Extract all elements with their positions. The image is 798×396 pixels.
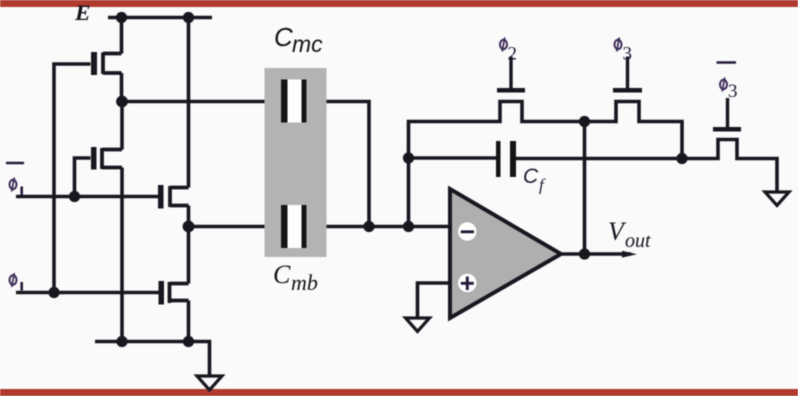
wire node A to Cmc left plate	[122, 100, 282, 104]
svg-text:C: C	[273, 260, 291, 289]
capacitor Cmb	[281, 205, 307, 248]
transistor M4 channel	[170, 282, 189, 303]
transistor M3 gate bar	[158, 185, 164, 209]
switch phi3 gate	[613, 57, 642, 93]
wire M4 source to bottom rail	[187, 301, 191, 342]
junction M1 gate on phi1 line	[48, 287, 59, 298]
junction inverting node	[403, 221, 414, 232]
junction node A	[116, 96, 128, 108]
shaded box around Cmc and Cmb	[265, 68, 327, 257]
svg-text:mb: mb	[291, 270, 318, 295]
bottom red border bar	[0, 389, 798, 396]
wire bottom rail	[95, 342, 210, 377]
wire M1 gate lead to phi1 line	[54, 64, 91, 293]
junction Cmc output on summing line	[363, 221, 374, 232]
label Cmb	[273, 260, 318, 295]
label Vout	[608, 217, 651, 252]
wire M3 source to node B	[187, 206, 191, 227]
label phi1 subscript 1	[20, 282, 23, 291]
label phi1 glyph	[10, 273, 17, 287]
wire op-amp output	[561, 252, 631, 256]
svg-text:3: 3	[728, 81, 738, 102]
wire Cf feedback branch left	[409, 156, 497, 160]
capacitor Cmc	[281, 80, 307, 123]
wire M1 source down to node A	[120, 73, 124, 102]
junction Cf left	[403, 152, 414, 163]
wire Cf feedback branch right	[516, 157, 682, 161]
label phi3 glyph	[615, 38, 622, 52]
transistor M1 channel	[103, 53, 122, 75]
wire Cmc right plate to summing node	[307, 102, 370, 227]
svg-text:3: 3	[623, 44, 633, 65]
wire phi1bar input line	[16, 195, 159, 199]
svg-text:C: C	[274, 22, 293, 52]
label phi2 glyph	[500, 38, 507, 52]
capacitor Cf	[496, 141, 516, 177]
transistor M2 gate bar	[91, 147, 97, 170]
svg-text:mc: mc	[292, 31, 323, 57]
wire E supply rail	[108, 16, 212, 20]
wire node A down to M2	[120, 102, 124, 150]
wire phi1 input line	[16, 291, 159, 295]
wire Cmb right plate to op-amp inverting input	[307, 225, 451, 229]
label phi3bar overbar	[717, 61, 737, 64]
top red border bar	[0, 0, 798, 7]
junction rail-M1	[116, 12, 127, 23]
label phi3bar glyph	[720, 78, 727, 92]
label Cf	[523, 165, 546, 195]
junction output node	[579, 248, 590, 259]
svg-text:out: out	[625, 230, 651, 252]
junction bottom rail right	[183, 336, 194, 347]
junction M2 gate on phi1bar line	[69, 191, 80, 202]
junction node B	[183, 221, 195, 233]
wire inverting node riser with phi2 and phi3 switch humps	[409, 102, 683, 227]
transistor M2 channel	[102, 148, 122, 169]
transistor M3 channel	[170, 186, 189, 207]
output arrowhead	[622, 251, 637, 258]
switch phi2 gate	[497, 57, 525, 93]
label phi1bar subscript 1	[20, 187, 23, 196]
op-amp inverting pin marker	[458, 222, 476, 240]
wire output feedback riser	[583, 122, 587, 255]
wire node B down to M4 drain	[187, 227, 191, 284]
wire M1 drain to rail	[120, 18, 124, 54]
junction Cf right phi3bar	[676, 153, 687, 164]
ground symbol bottom-left	[197, 376, 222, 390]
transistor M4 gate bar	[159, 281, 165, 305]
transistor M1 gate bar	[91, 52, 97, 75]
svg-text:E: E	[74, 0, 91, 25]
wire rail to M3 drain	[187, 18, 191, 188]
label phi1bar overbar	[6, 162, 24, 165]
wire node B to Cmb left plate	[189, 225, 282, 229]
svg-text:2: 2	[508, 44, 518, 65]
switch phi3bar gate	[713, 98, 741, 132]
label phi1bar glyph	[10, 178, 17, 192]
junction rail-M3	[183, 12, 194, 23]
ground symbol far right	[765, 192, 789, 206]
ground symbol op-amp plus input	[406, 318, 430, 332]
op-amp U1	[450, 189, 561, 318]
wire op-amp noninverting input to ground	[418, 283, 451, 318]
wire M2 gate lead to phi1bar line	[75, 158, 91, 197]
wire phi3bar switch to right ground	[682, 140, 777, 193]
junction bottom rail left	[116, 336, 127, 347]
wire M2 source down to bottom rail	[120, 168, 124, 342]
junction feedback top	[579, 116, 590, 127]
op-amp noninverting pin marker	[458, 274, 476, 292]
svg-text:C: C	[523, 165, 539, 188]
label Cmc	[274, 22, 323, 57]
